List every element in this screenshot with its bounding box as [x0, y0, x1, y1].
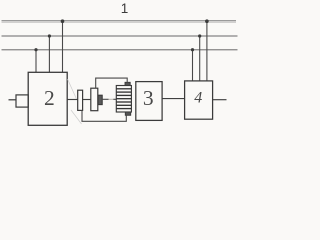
box 3 [136, 82, 162, 121]
box 2 (motor unit) [28, 72, 67, 125]
wire drop left b (L2 to box 2) [48, 36, 50, 73]
junction dot right b [198, 34, 201, 37]
grid element (hatched box) [116, 86, 131, 113]
left shaft stub [9, 99, 17, 101]
bus line L2 (middle supply line) [2, 35, 238, 37]
bottom linkage wire [82, 110, 126, 121]
shaft box2 to coupling [67, 99, 78, 101]
output stub wire [213, 99, 227, 101]
crease mark upper [68, 79, 77, 99]
coupling disc 1 [78, 90, 83, 110]
box 4 [185, 81, 213, 119]
svg-text:1: 1 [121, 1, 129, 16]
left terminal box [16, 95, 28, 107]
junction dot left b [48, 34, 51, 37]
wire box3 to box4 [162, 98, 185, 100]
svg-text:2: 2 [44, 86, 55, 110]
wire drop right b (L2 to box 4) [199, 36, 201, 81]
wire drop right c (L1 to box 4) [206, 21, 208, 81]
grid top clamp [125, 82, 130, 85]
bus line L3 (bottom supply line) [2, 49, 238, 51]
grid hatch lines [116, 89, 131, 109]
bus line L1 (top supply line) [2, 20, 237, 22]
wire drop left a (L3 to box 2) [35, 50, 37, 73]
junction dot right a [191, 48, 194, 51]
top linkage wire [96, 78, 128, 88]
grid bottom clamp [125, 112, 130, 115]
coupling disc 2 (clutch) [91, 88, 98, 111]
crease mark lower [71, 110, 82, 124]
svg-text:3: 3 [143, 86, 154, 110]
svg-text:4: 4 [194, 90, 202, 107]
junction dot right c [205, 19, 209, 23]
wire drop right a (L3 to box 4) [192, 50, 194, 81]
junction dot left a [34, 48, 37, 51]
shaft between discs [83, 99, 91, 101]
clutch flange [98, 95, 102, 104]
wire drop left c (L1 to box 2) [62, 21, 64, 72]
shaft to grid element [102, 98, 108, 100]
junction dot left c [61, 19, 65, 23]
